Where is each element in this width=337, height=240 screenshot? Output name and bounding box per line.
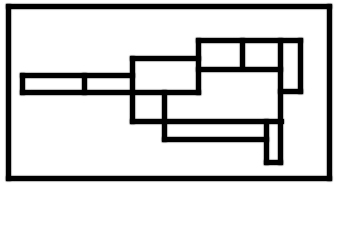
top row top edge xyxy=(196,38,303,43)
top row bottom edge xyxy=(196,67,283,72)
left bar / box M shared bottom edge xyxy=(20,90,201,95)
box M top edge xyxy=(130,56,201,61)
hanging box bottom edge xyxy=(264,160,283,165)
big box R bottom edge / box B1 bottom edge xyxy=(130,119,284,124)
box M right edge / top row left edge xyxy=(196,38,201,95)
tall box right edge xyxy=(298,38,303,94)
bottom bar left edge xyxy=(162,90,167,142)
box M left edge continuing as box B1 left edge xyxy=(130,56,135,124)
left bar left end xyxy=(20,73,25,95)
tall box left edge / big box R right edge / hanging box right edge xyxy=(278,38,283,165)
top row divider xyxy=(240,38,245,71)
tall box bottom edge xyxy=(278,89,303,94)
left bar top edge xyxy=(20,73,135,78)
outer border bottom edge xyxy=(6,176,332,181)
bottom bar bottom edge xyxy=(162,137,269,142)
outer border left edge xyxy=(6,4,11,181)
hanging box left edge xyxy=(264,119,269,165)
left bar divider xyxy=(82,73,87,95)
outer border top edge xyxy=(6,4,332,9)
outer border right edge xyxy=(327,4,332,181)
